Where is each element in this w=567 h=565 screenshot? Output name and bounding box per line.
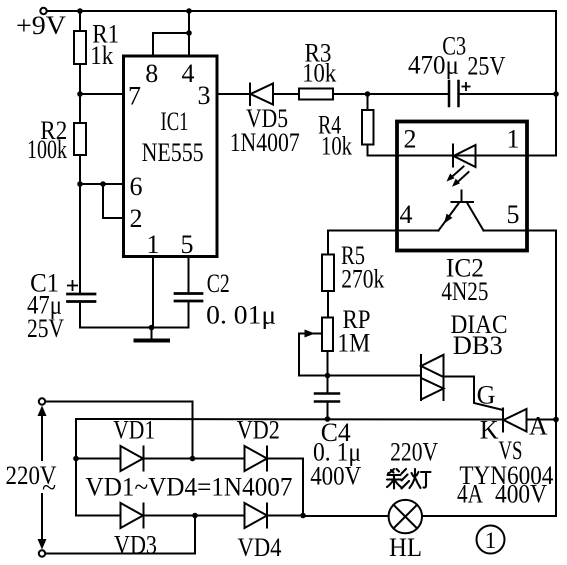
wire R3 to C3 <box>333 93 449 95</box>
wire R4 drop <box>367 94 369 110</box>
svg-text:220V: 220V <box>390 438 438 467</box>
diode VD3 <box>121 503 144 528</box>
resistor R5 <box>322 255 334 292</box>
wire pin 1 drop <box>152 257 154 328</box>
svg-text:0. 01μ: 0. 01μ <box>206 301 276 330</box>
svg-text:8: 8 <box>145 59 158 88</box>
wire C1 drop <box>79 302 81 328</box>
RP wiper arrow <box>299 330 322 338</box>
svg-text:7: 7 <box>128 82 141 111</box>
svg-text:25V: 25V <box>467 51 505 80</box>
wire VD2 to right edge <box>267 458 303 460</box>
wire pin 5 to right rail <box>484 230 557 232</box>
wire to DIAC <box>328 375 422 377</box>
wire VD1 to VD2 <box>144 458 245 460</box>
svg-text:270k: 270k <box>341 264 384 293</box>
phototransistor inside IC2 <box>439 191 484 231</box>
capacitor C1 <box>68 294 96 302</box>
junction ground node <box>149 325 155 331</box>
svg-text:25V: 25V <box>27 314 64 343</box>
wire DIAC to gate G <box>444 377 504 411</box>
junction pin4 rail <box>186 8 192 14</box>
svg-text:4: 4 <box>182 59 195 88</box>
capacitor C2 <box>175 294 202 302</box>
wire C2 drop <box>188 301 190 328</box>
wire IC2 pin 4 to R5 <box>397 230 439 232</box>
wire pin4 out <box>328 231 397 255</box>
wire RP bottom to C4 <box>327 351 329 393</box>
wire bridge plus rail to VS K <box>76 418 503 421</box>
wire VD3 row <box>76 515 121 517</box>
svg-text:A: A <box>529 412 548 441</box>
wire RP wiper to bottom <box>299 334 328 376</box>
wire pin 6 <box>80 183 124 185</box>
LED inside IC2 <box>453 145 476 168</box>
svg-text:VD1: VD1 <box>113 416 155 445</box>
ground <box>136 328 169 341</box>
capacitor C4 <box>315 394 339 402</box>
junction pin6-pin2 link <box>100 181 106 187</box>
wire C3 to right rail <box>459 93 557 95</box>
wire pin 8 to pin 4 <box>153 33 189 56</box>
svg-text:~: ~ <box>42 473 56 502</box>
svg-text:IC1: IC1 <box>161 107 189 136</box>
junction RP bottom node <box>325 373 331 379</box>
DIAC DB3 <box>421 355 444 400</box>
LED light arrow 1 <box>447 167 464 182</box>
junction right rail C3 <box>553 91 559 97</box>
capacitor C3 <box>449 81 459 106</box>
junction VD1 left <box>73 456 79 462</box>
junction pin4 top <box>186 30 192 36</box>
svg-text:6: 6 <box>130 172 143 201</box>
svg-text:1k: 1k <box>90 41 113 70</box>
svg-text:4A: 4A <box>457 480 483 509</box>
svg-text:10k: 10k <box>321 131 352 160</box>
junction pin6 node <box>77 181 83 187</box>
wire AC bottom lead <box>45 516 195 554</box>
junction at R1 top <box>77 8 83 14</box>
label caideng colored lamp glyphs <box>387 469 409 489</box>
wire VD3 to VD4 <box>144 515 245 517</box>
wire VD1 row <box>76 458 121 460</box>
svg-text:2: 2 <box>130 204 143 233</box>
wire HL to VD4 node <box>303 515 389 517</box>
wire right rail lower <box>555 231 557 517</box>
svg-text:VD4: VD4 <box>238 533 282 562</box>
svg-text:470μ: 470μ <box>408 51 459 80</box>
svg-text:+9V: +9V <box>16 11 66 40</box>
diode VD4 <box>245 503 268 528</box>
C1 plus sign <box>67 280 78 291</box>
junction C4 bottom <box>325 416 331 422</box>
wire right rail upper <box>555 11 557 156</box>
svg-text:VD2: VD2 <box>237 416 280 445</box>
wire VD4 to output node <box>267 515 303 517</box>
svg-text:400V: 400V <box>495 480 547 509</box>
wire LED net inside IC2 to pin1 rail <box>397 155 556 157</box>
svg-text:5: 5 <box>181 230 194 259</box>
wire pin 2 link <box>103 184 124 218</box>
node AC top terminal <box>39 398 45 404</box>
wire R5 to RP <box>327 291 329 318</box>
wire VS A to right rail <box>527 419 557 421</box>
wire pin 5 drop <box>188 257 190 294</box>
lamp HL <box>389 500 422 533</box>
svg-text:DB3: DB3 <box>453 331 503 360</box>
diode VD2 <box>245 446 268 471</box>
svg-text:HL: HL <box>389 533 422 562</box>
junction VS anode rail <box>553 417 559 423</box>
op-amp U1 IC1 box <box>124 56 218 257</box>
svg-text:10k: 10k <box>302 59 336 88</box>
label deng lamp glyph <box>410 469 431 488</box>
wire R2 to C1 <box>79 155 81 294</box>
svg-text:C2: C2 <box>207 269 230 298</box>
optocoupler U2 IC2 box <box>397 122 527 251</box>
wire pin 7 <box>80 93 124 95</box>
svg-text:1: 1 <box>507 125 520 154</box>
220V arrow up <box>38 406 47 461</box>
diode VD1 <box>121 446 144 471</box>
potentiometer RP <box>322 318 333 352</box>
svg-text:1: 1 <box>147 230 160 259</box>
svg-text:5: 5 <box>507 200 520 229</box>
svg-text:2: 2 <box>404 125 417 154</box>
junction AC top input <box>190 456 196 462</box>
wire supply drop to R1 <box>79 11 81 31</box>
wire top rail +9V <box>47 10 556 12</box>
svg-text:K: K <box>480 416 499 445</box>
wire AC top lead <box>45 402 193 459</box>
svg-text:4N25: 4N25 <box>441 277 488 306</box>
junction R4 top <box>365 91 371 97</box>
220V arrow down <box>38 494 47 550</box>
node +9V terminal <box>40 8 46 14</box>
svg-text:3: 3 <box>198 81 211 110</box>
svg-text:400V: 400V <box>310 462 361 491</box>
wire C4 to bottom rail <box>327 402 329 420</box>
diode VD5 <box>250 84 273 106</box>
wire bottom right to HL <box>422 515 556 517</box>
junction VD4 output <box>300 513 306 519</box>
svg-text:NE555: NE555 <box>142 138 204 167</box>
thyristor VS <box>503 409 527 432</box>
svg-text:VD1~VD4=1N4007: VD1~VD4=1N4007 <box>86 472 293 501</box>
svg-text:VD3: VD3 <box>114 531 157 560</box>
junction AC bottom input <box>192 513 198 519</box>
wire ground bus <box>80 327 189 329</box>
resistor R1 <box>74 31 86 64</box>
wire VD5 to R3 <box>273 93 299 95</box>
wire bridge right edge <box>302 459 304 516</box>
svg-text:1: 1 <box>485 528 497 553</box>
wire pin 4 drop <box>188 11 190 56</box>
wire R1 to R2 <box>79 64 81 123</box>
LED light arrow 2 <box>452 172 469 187</box>
svg-text:1N4007: 1N4007 <box>230 128 300 157</box>
svg-text:G: G <box>477 381 496 410</box>
figure number circled 1 <box>477 526 505 554</box>
svg-text:100k: 100k <box>27 135 67 164</box>
C3 plus sign <box>462 82 471 91</box>
svg-text:1M: 1M <box>337 328 370 357</box>
resistor R2 <box>74 123 86 155</box>
resistor R3 <box>299 89 333 100</box>
node AC bottom terminal <box>39 550 45 556</box>
wire bridge left edge <box>75 419 77 516</box>
resistor R4 <box>362 110 374 145</box>
wire R4 to IC2 pin2 <box>368 145 398 156</box>
junction pin7 node <box>77 91 83 97</box>
wire pin 3 to VD5 <box>217 93 250 95</box>
svg-text:4: 4 <box>400 200 413 229</box>
